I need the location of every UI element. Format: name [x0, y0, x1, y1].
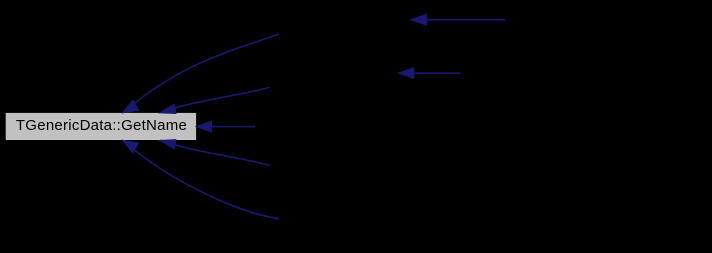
wire edge6 standalone top	[412, 19, 505, 21]
wire edge5 curve from caller (bottom)	[122, 140, 278, 219]
arrowhead edge6	[411, 14, 427, 25]
wire edge4	[161, 140, 270, 165]
arrowhead edge3	[196, 121, 211, 132]
wire edge3 horizontal	[197, 126, 255, 128]
node TGenericData::GetName	[6, 113, 196, 140]
arrowhead edge5	[122, 140, 138, 153]
arrowhead edge4	[160, 140, 176, 149]
svg-text:TGenericData::GetName: TGenericData::GetName	[16, 117, 187, 134]
wire edge7 standalone middle	[399, 72, 461, 74]
arrowhead edge2	[160, 104, 176, 113]
wire edge1 curve from caller (top)	[123, 34, 279, 113]
wire edge2	[161, 87, 270, 112]
arrowhead edge1	[123, 100, 139, 113]
arrowhead edge7	[398, 68, 414, 79]
